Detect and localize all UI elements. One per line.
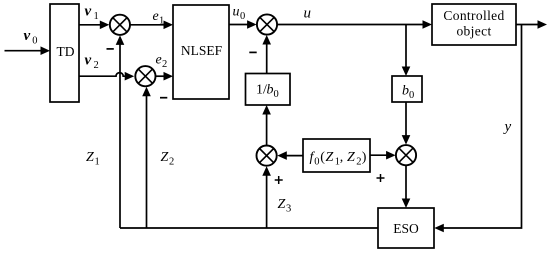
node v1 label [85, 4, 99, 23]
node v2 label [85, 53, 99, 72]
svg-text:TD: TD [57, 44, 75, 59]
wire S5 to ESO [402, 165, 411, 208]
wire branch from u down to b0 [402, 25, 411, 77]
summing junction S5 [396, 145, 416, 165]
wire 1/b0 up to S3 [262, 35, 271, 74]
block ESO [378, 208, 434, 248]
minus sign at S2 [160, 97, 167, 99]
node e1 label [153, 9, 165, 27]
svg-text:e: e [153, 9, 159, 24]
wire b0 to summing junction S5 [402, 102, 411, 145]
svg-text:Z: Z [161, 150, 169, 165]
svg-text:u: u [233, 5, 240, 20]
wire f0 to summing junction S5 (rightward) [370, 151, 396, 160]
wire e2: S2 to NLSEF [156, 72, 174, 81]
svg-text:b: b [402, 84, 409, 99]
block Controlled object [432, 4, 516, 45]
wire S4 up to 1/b0 [262, 105, 271, 146]
minus sign at S1 [107, 48, 114, 50]
svg-text:): ) [362, 150, 367, 165]
svg-text:NLSEF: NLSEF [181, 43, 223, 58]
node u0 label [233, 5, 246, 23]
block 1/b0 [246, 74, 291, 106]
wire u: S3 to Controlled object [277, 20, 432, 29]
wire v0 input arrow [5, 46, 51, 55]
svg-text:Z: Z [326, 150, 334, 165]
plus sign at S4 [275, 176, 283, 184]
svg-text:v: v [85, 53, 92, 69]
summing junction S4 [257, 146, 277, 166]
block TD [50, 4, 79, 102]
summing junction S3 [257, 14, 277, 34]
wire Z2: bottom line up to S2 [142, 87, 151, 228]
svg-text:,: , [340, 150, 344, 165]
svg-text:1: 1 [159, 16, 164, 27]
wire v2: TD to summing junction S2 (with crossover hop) [79, 72, 134, 81]
wire u0: NLSEF to summing junction S3 [229, 20, 257, 29]
svg-text:0: 0 [409, 90, 414, 101]
svg-text:Z: Z [86, 150, 94, 165]
wire f0 to summing junction S4 (leftward) [277, 151, 303, 160]
svg-text:Z: Z [278, 197, 286, 212]
svg-text:1/: 1/ [256, 83, 267, 98]
wire Z3: bottom line up to S4 [262, 166, 271, 228]
node Z1 label [86, 150, 100, 168]
wire y feedback: down right side then left into ESO [434, 25, 521, 233]
svg-text:0: 0 [274, 89, 279, 100]
svg-text:3: 3 [286, 204, 291, 215]
wire v1: TD to summing junction S1 [79, 21, 109, 30]
svg-text:object: object [456, 24, 491, 39]
node Z2 label [161, 150, 175, 168]
wire e1: S1 to NLSEF [130, 21, 173, 30]
wire Z1: bottom line up to S1 [116, 35, 125, 228]
svg-text:1: 1 [94, 11, 99, 22]
svg-text:y: y [503, 119, 512, 135]
svg-text:0: 0 [240, 11, 245, 22]
svg-text:2: 2 [94, 60, 99, 71]
svg-text:2: 2 [356, 157, 361, 168]
node v0 label [24, 28, 38, 47]
svg-text:u: u [304, 6, 312, 22]
block f0(Z1,Z2) [303, 139, 370, 172]
block b0 [392, 76, 422, 102]
plus sign at S5 [377, 174, 385, 182]
svg-text:2: 2 [162, 59, 167, 70]
svg-text:v: v [24, 28, 31, 44]
svg-text:e: e [156, 53, 162, 68]
node e2 label [156, 53, 168, 71]
svg-text:ESO: ESO [393, 221, 419, 236]
summing junction S1 [110, 15, 130, 35]
wire ESO output bottom line to left [120, 227, 378, 229]
svg-text:b: b [267, 83, 274, 98]
summing junction S2 [135, 66, 155, 86]
svg-text:1: 1 [95, 157, 100, 168]
wire output y arrow [516, 20, 547, 29]
block NLSEF [173, 5, 229, 99]
svg-text:0: 0 [32, 36, 37, 47]
svg-text:v: v [85, 4, 92, 20]
svg-text:0: 0 [314, 157, 319, 168]
svg-text:Z: Z [347, 150, 355, 165]
svg-text:2: 2 [169, 157, 174, 168]
minus sign at S3 [249, 51, 256, 53]
svg-text:Controlled: Controlled [443, 8, 504, 23]
node Z3 label [278, 197, 292, 215]
